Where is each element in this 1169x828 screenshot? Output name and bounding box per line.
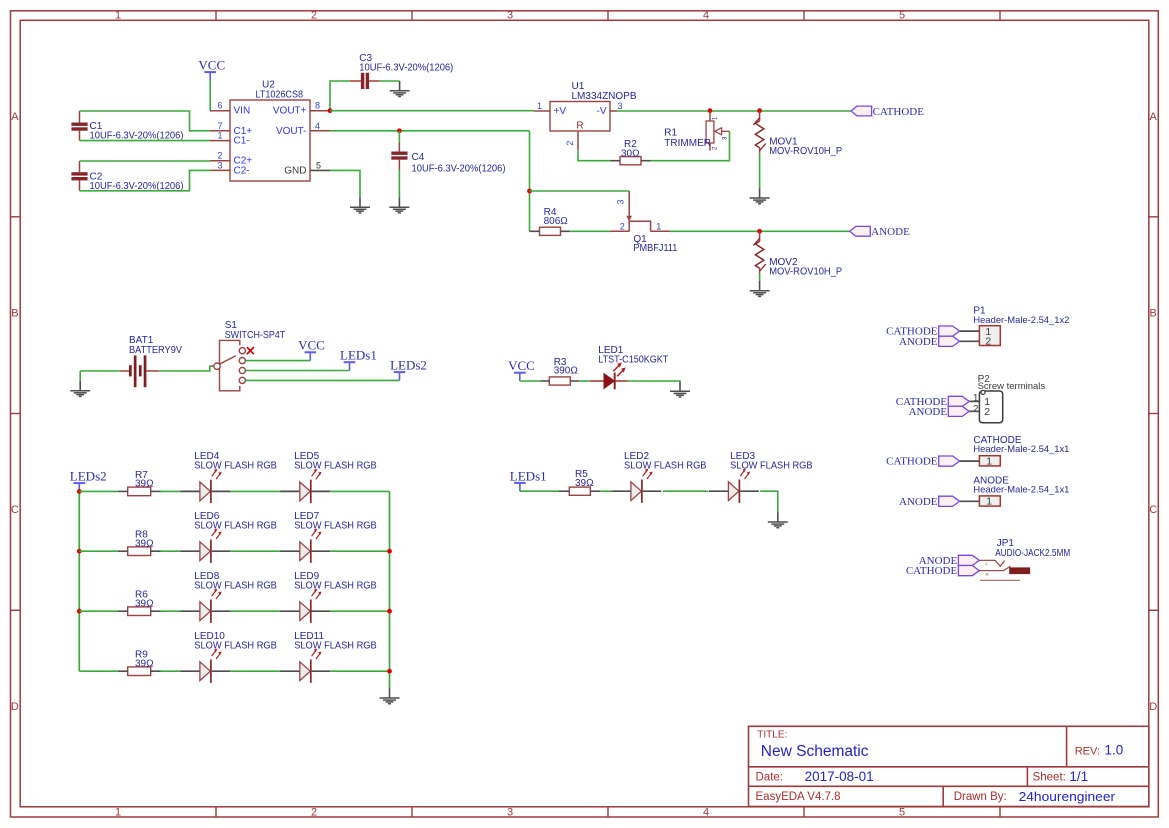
power flag VCC (LED1 row) [514, 373, 526, 381]
wire MOV2 to ground [759, 273, 761, 281]
svg-text:VCC: VCC [298, 338, 325, 353]
LED LED8 SLOW FLASH RGB [180, 600, 230, 623]
LED LED6 SLOW FLASH RGB [180, 540, 230, 563]
wire LED3 to ground [760, 491, 778, 512]
svg-text:1: 1 [713, 116, 719, 120]
svg-text:5: 5 [899, 10, 905, 22]
net label ANODE (P1) [939, 336, 960, 346]
ground at U2 pin 5 [350, 197, 370, 213]
svg-text:MOV-ROV10H_P: MOV-ROV10H_P [769, 146, 842, 157]
svg-text:39Ω: 39Ω [135, 598, 154, 609]
wire left bus LEDs2 [78, 491, 80, 671]
U2 pin 8 VOUT+ [310, 110, 330, 112]
title block frame [749, 726, 1149, 806]
U2 pin 6 VIN [210, 110, 230, 112]
LED LED3 SLOW FLASH RGB [709, 480, 759, 503]
CATHODE header pin lead [960, 460, 980, 462]
wire LED11 to right bus [330, 670, 389, 672]
svg-text:D: D [11, 701, 19, 713]
svg-text:B: B [1150, 308, 1157, 320]
power flag VCC (top) [204, 72, 216, 80]
wire R7 to LED4 [161, 490, 181, 492]
wire LED2 to LED3 [663, 490, 708, 492]
junction at U2 pin 8 [328, 108, 333, 113]
wire R5 to LED2 [600, 490, 611, 492]
svg-text:2: 2 [973, 404, 979, 415]
svg-text:3: 3 [507, 806, 513, 818]
wire row R9 from bus [79, 670, 118, 672]
svg-text:2: 2 [620, 222, 625, 232]
LED LED10 SLOW FLASH RGB [180, 660, 230, 683]
wire VOUT- down to R4 node [529, 131, 531, 232]
capacitor C4 [391, 142, 407, 170]
varistor MOV1 [753, 111, 765, 153]
P2 pin 2 lead [969, 410, 979, 412]
wire ground to BAT1 [80, 370, 120, 372]
wire U1 pin 2 to R2 [578, 150, 610, 160]
svg-text:LM334ZNOPB: LM334ZNOPB [572, 91, 637, 102]
svg-text:Sheet:: Sheet: [1033, 772, 1066, 784]
wire LED10 to LED11 [230, 670, 280, 672]
wire C1 bottom to U2 pin 1 [80, 140, 211, 142]
wire U2 GND pin to ground [330, 170, 360, 197]
net label ANODE (JP1) [958, 555, 979, 565]
svg-text:AUDIO-JACK2.5MM: AUDIO-JACK2.5MM [995, 548, 1070, 559]
svg-text:39Ω: 39Ω [135, 538, 154, 549]
junction at MOV1 [757, 108, 762, 113]
ground at battery [70, 381, 90, 397]
svg-text:SLOW FLASH RGB: SLOW FLASH RGB [294, 641, 377, 652]
junction right bus row 4 [387, 669, 392, 674]
junction at trimmer R1 [708, 108, 713, 113]
junction at Q1 gate branch [527, 189, 532, 194]
svg-text:-V: -V [597, 106, 607, 117]
connector P2 screw terminals [979, 391, 1002, 423]
resistor R3 [549, 377, 570, 385]
net label CATHODE (top) [851, 106, 872, 116]
svg-text:4: 4 [315, 121, 320, 131]
connector P1 Header-Male-2.54_1x2 [979, 326, 1000, 346]
U1 pin 1 +V [534, 110, 550, 112]
wire U2 pin 4 VOUT- east [330, 130, 530, 132]
wire LEDs1 to R5 [520, 490, 559, 492]
wire S1 throw 4 to LEDs2 [246, 379, 400, 381]
LED LED11 SLOW FLASH RGB [280, 660, 330, 683]
wire LED7 to right bus [330, 550, 389, 552]
svg-text:R1: R1 [664, 127, 677, 138]
ANODE header pin lead [960, 500, 980, 502]
svg-text:2: 2 [311, 806, 317, 818]
svg-text:6: 6 [217, 101, 222, 111]
net label CATHODE (header) [939, 456, 960, 466]
wire VCC to R3 [520, 380, 541, 382]
wire right bus to ground [389, 491, 391, 688]
svg-text:C: C [1149, 504, 1157, 516]
svg-text:3: 3 [507, 10, 513, 22]
U1 pin 3 -V [610, 110, 617, 112]
wire R3 to LED1 [579, 380, 590, 382]
IC U2 LT1026CS8 body [230, 100, 310, 181]
svg-text:REV:: REV: [1075, 745, 1100, 757]
ground at C3 [390, 81, 410, 97]
svg-text:3: 3 [617, 101, 622, 111]
svg-text:New Schematic: New Schematic [761, 743, 869, 760]
svg-text:1: 1 [986, 496, 992, 508]
resistor R9 [128, 667, 151, 676]
svg-text:ANODE: ANODE [899, 336, 938, 348]
U2 pin 2 C2+ [210, 160, 230, 162]
svg-text:Drawn By:: Drawn By: [954, 791, 1007, 803]
IC U1 LM334ZNOPB body [550, 102, 610, 132]
svg-text:2017-08-01: 2017-08-01 [805, 769, 874, 784]
capacitor C2 [71, 161, 87, 191]
svg-text:Header-Male-2.54_1x1: Header-Male-2.54_1x1 [973, 485, 1069, 495]
svg-text:1: 1 [656, 222, 661, 232]
svg-text:SLOW FLASH RGB: SLOW FLASH RGB [294, 461, 377, 472]
svg-text:5: 5 [899, 806, 905, 818]
ground at LED3 [768, 512, 788, 528]
wire row R8 from bus [79, 550, 118, 552]
svg-text:D: D [1149, 701, 1157, 713]
resistor R2 [620, 157, 641, 165]
svg-text:VIN: VIN [234, 106, 251, 117]
svg-text:LEDs1: LEDs1 [510, 468, 547, 483]
wire R8 to LED6 [161, 550, 181, 552]
svg-text:A: A [11, 111, 19, 123]
LED LED2 SLOW FLASH RGB [611, 480, 661, 503]
svg-text:4: 4 [703, 10, 709, 22]
junction left bus row 2 [77, 549, 82, 554]
wire S1 throw 3 to LEDs1 [246, 370, 350, 372]
svg-text:39Ω: 39Ω [135, 479, 154, 490]
svg-text:2: 2 [565, 141, 575, 146]
svg-text:SLOW FLASH RGB: SLOW FLASH RGB [624, 461, 707, 472]
net label ANODE (P2) [948, 406, 969, 416]
svg-text:SLOW FLASH RGB: SLOW FLASH RGB [194, 641, 277, 652]
U2 pin 7 C1+ [210, 130, 230, 132]
wire LED4 to LED5 [230, 490, 280, 492]
svg-text:LEDs1: LEDs1 [340, 348, 377, 363]
wire C2 bottom to U2 pin 3 [80, 170, 211, 190]
P2 pin 1 indicator circle [981, 390, 985, 394]
svg-text:C: C [11, 504, 19, 516]
wire BAT1 to S1 [159, 366, 211, 371]
net label ANODE (top) [850, 226, 871, 236]
LED LED1 LTST-C150KGKT [590, 373, 628, 390]
ground at LED matrix [380, 688, 400, 704]
P2 pin 1 lead [969, 400, 979, 402]
resistor R4 [540, 227, 561, 235]
U2 pin 5 GND [310, 169, 330, 171]
junction right bus row 3 [387, 609, 392, 614]
svg-text:10UF-6.3V-20%(1206): 10UF-6.3V-20%(1206) [359, 63, 453, 74]
junction left bus row 1 [77, 489, 82, 494]
net label LEDs2 (matrix) [74, 483, 86, 491]
wire Q1 pin 1 to ANODE [670, 230, 850, 232]
svg-text:SWITCH-SP4T: SWITCH-SP4T [225, 330, 286, 341]
svg-text:1/1: 1/1 [1069, 769, 1088, 784]
wire R4 to Q1 pin 2 [570, 230, 610, 232]
wire MOV1 to ground [759, 153, 761, 189]
svg-text:7: 7 [217, 121, 222, 131]
svg-text:3: 3 [723, 136, 729, 140]
resistor R7 [128, 487, 151, 496]
S1 unused throw X mark [247, 347, 254, 354]
switch S1 SWITCH-SP4T [211, 340, 245, 390]
wire R2 to trimmer wiper [651, 131, 730, 160]
svg-text:C4: C4 [412, 152, 425, 163]
wire row R7 from bus [79, 490, 118, 492]
connector CATHODE Header-Male-2.54_1x1 [979, 456, 1000, 466]
svg-text:3: 3 [217, 160, 222, 170]
svg-text:TRIMMER: TRIMMER [664, 138, 711, 149]
svg-text:1: 1 [115, 10, 121, 22]
wire R6 to LED8 [161, 610, 181, 612]
svg-text:3: 3 [616, 199, 626, 204]
wire C4 to ground [398, 170, 400, 198]
svg-text:1.0: 1.0 [1105, 743, 1124, 758]
capacitor C1 [71, 111, 87, 141]
svg-text:Header-Male-2.54_1x1: Header-Male-2.54_1x1 [973, 444, 1069, 454]
svg-text:ANODE: ANODE [899, 496, 938, 508]
svg-text:30Ω: 30Ω [621, 149, 640, 160]
svg-text:1: 1 [537, 101, 542, 111]
svg-text:2: 2 [985, 336, 991, 348]
svg-text:39Ω: 39Ω [575, 478, 594, 489]
net label CATHODE (P1) [939, 326, 960, 336]
trimmer resistor R1 [706, 111, 729, 151]
net label CATHODE (JP1) [958, 566, 979, 576]
LED LED4 SLOW FLASH RGB [180, 480, 230, 503]
resistor R6 [128, 607, 151, 616]
U2 pin 4 VOUT- [310, 130, 330, 132]
svg-text:Date:: Date: [756, 772, 784, 784]
junction left bus row 3 [77, 609, 82, 614]
wire LED1 to ground [628, 380, 680, 383]
net label ANODE (header) [939, 496, 960, 506]
svg-text:2: 2 [311, 10, 317, 22]
svg-text:VOUT+: VOUT+ [273, 106, 307, 117]
svg-text:EasyEDA V4.7.8: EasyEDA V4.7.8 [756, 791, 841, 803]
svg-text:C2-: C2- [234, 165, 250, 176]
wire LED8 to LED9 [230, 610, 280, 612]
svg-text:L: L [986, 561, 989, 566]
resistor R5 [569, 487, 590, 495]
svg-text:4: 4 [703, 806, 709, 818]
wire LED9 to right bus [330, 610, 389, 612]
wire C2 top to U2 pin 2 [80, 160, 211, 162]
svg-text:1: 1 [115, 806, 121, 818]
wire C1 top to U2 pin 7 [80, 111, 211, 131]
U2 pin 1 C1- [210, 140, 230, 142]
svg-text:ANODE: ANODE [871, 226, 910, 238]
svg-text:ANODE: ANODE [909, 406, 948, 418]
svg-text:Header-Male-2.54_1x2: Header-Male-2.54_1x2 [973, 315, 1069, 325]
wire row R6 from bus [79, 610, 118, 612]
svg-text:10UF-6.3V-20%(1206): 10UF-6.3V-20%(1206) [412, 164, 506, 175]
wire VCC to U2 pin 6 [209, 80, 211, 110]
svg-text:SLOW FLASH RGB: SLOW FLASH RGB [194, 581, 277, 592]
svg-text:C1-: C1- [234, 136, 250, 147]
wire S1 throw 2 to VCC [246, 360, 311, 362]
svg-text:LT1026CS8: LT1026CS8 [256, 90, 304, 101]
resistor R8 [128, 547, 151, 556]
wire U2 pin 8 to U1 pin 1 [330, 110, 534, 112]
svg-text:CATHODE: CATHODE [886, 456, 938, 468]
svg-text:VOUT-: VOUT- [276, 126, 307, 137]
net label LEDs1 (switch) [344, 362, 356, 370]
wire LED6 to LED7 [230, 550, 280, 552]
net label LEDs1 (LED row) [514, 483, 526, 491]
wire C3 to ground [380, 80, 400, 82]
svg-text:SLOW FLASH RGB: SLOW FLASH RGB [294, 581, 377, 592]
wire U1 pin 3 to CATHODE [617, 110, 851, 112]
svg-text:SLOW FLASH RGB: SLOW FLASH RGB [194, 521, 277, 532]
svg-text:2: 2 [713, 146, 719, 150]
svg-text:5: 5 [316, 160, 321, 170]
LED LED5 SLOW FLASH RGB [280, 480, 330, 503]
LED LED7 SLOW FLASH RGB [280, 540, 330, 563]
svg-text:SLOW FLASH RGB: SLOW FLASH RGB [730, 461, 813, 472]
svg-text:1: 1 [217, 131, 222, 141]
svg-text:A: A [1150, 111, 1158, 123]
svg-text:24hourengineer: 24hourengineer [1019, 790, 1116, 804]
net label CATHODE (P2) [948, 396, 969, 406]
wire R9 to LED10 [161, 670, 181, 672]
svg-text:LTST-C150KGKT: LTST-C150KGKT [598, 355, 668, 366]
junction right bus row 2 [387, 549, 392, 554]
svg-text:8: 8 [315, 101, 320, 111]
svg-text:CATHODE: CATHODE [873, 106, 925, 118]
junction at MOV2 [757, 229, 762, 234]
ground at MOV2 [750, 281, 770, 297]
P1 pin 2 lead [960, 340, 980, 342]
junction at C4 [397, 128, 402, 133]
connector JP1 AUDIO-JACK2.5MM [979, 560, 1030, 580]
svg-text:39Ω: 39Ω [135, 658, 154, 669]
ground at C4 [389, 197, 409, 213]
svg-text:BATTERY9V: BATTERY9V [129, 345, 182, 356]
varistor MOV2 [753, 231, 765, 273]
svg-text:Screw terminals: Screw terminals [978, 381, 1046, 392]
svg-text:2: 2 [217, 151, 222, 161]
wire LED5 to right bus [330, 490, 389, 492]
U2 pin 3 C2- [210, 169, 230, 171]
svg-text:TITLE:: TITLE: [757, 729, 787, 740]
connector ANODE Header-Male-2.54_1x1 [979, 496, 1000, 506]
wire to Q1 gate [530, 190, 630, 192]
ground at LED1 [670, 382, 690, 398]
svg-text:PMBFJ111: PMBFJ111 [633, 243, 677, 254]
svg-text:CATHODE: CATHODE [906, 565, 958, 577]
power flag VCC (switch) [305, 352, 317, 360]
svg-text:R: R [986, 572, 990, 577]
svg-text:1: 1 [973, 393, 979, 404]
svg-text:SLOW FLASH RGB: SLOW FLASH RGB [294, 521, 377, 532]
svg-text:2: 2 [984, 406, 990, 418]
transistor Q1 PMBFJ111 [610, 191, 670, 231]
svg-text:VCC: VCC [508, 358, 535, 373]
svg-text:1: 1 [986, 455, 992, 467]
svg-text:MOV-ROV10H_P: MOV-ROV10H_P [769, 267, 842, 278]
svg-text:SLOW FLASH RGB: SLOW FLASH RGB [194, 461, 277, 472]
ground at MOV1 [750, 188, 770, 204]
svg-text:LEDs2: LEDs2 [390, 358, 427, 373]
svg-text:LEDs2: LEDs2 [70, 469, 107, 484]
svg-text:GND: GND [284, 165, 306, 176]
svg-text:VCC: VCC [198, 58, 225, 73]
svg-text:B: B [11, 308, 18, 320]
P1 pin 1 lead [960, 330, 980, 332]
svg-text:806Ω: 806Ω [544, 216, 569, 227]
net label LEDs2 (switch) [394, 372, 406, 380]
capacitor C3 [350, 73, 380, 89]
U1 pin 2 R [577, 131, 579, 150]
svg-text:R: R [576, 121, 583, 132]
svg-text:+V: +V [554, 106, 567, 117]
LED LED9 SLOW FLASH RGB [280, 600, 330, 623]
wire U2 pin 8 up to C3 [330, 81, 350, 111]
battery BAT1 [120, 355, 160, 387]
svg-text:390Ω: 390Ω [554, 365, 579, 376]
